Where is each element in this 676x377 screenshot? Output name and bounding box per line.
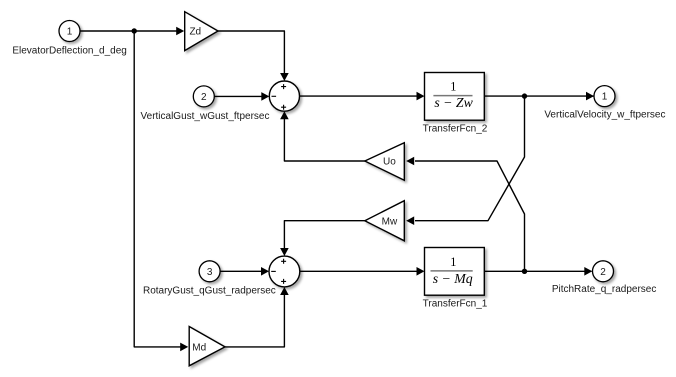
svg-text:1: 1	[67, 27, 73, 38]
svg-text:TransferFcn_2: TransferFcn_2	[423, 124, 488, 135]
svg-text:VerticalGust_wGust_ftpersec: VerticalGust_wGust_ftpersec	[141, 111, 270, 122]
svg-text:VerticalVelocity_w_ftpersec: VerticalVelocity_w_ftpersec	[544, 109, 665, 120]
svg-text:1: 1	[602, 92, 608, 103]
svg-text:RotaryGust_qGust_radpersec: RotaryGust_qGust_radpersec	[143, 285, 276, 296]
svg-text:Uo: Uo	[383, 157, 396, 168]
svg-text:2: 2	[201, 92, 207, 103]
svg-text:Md: Md	[192, 343, 206, 354]
svg-text:ElevatorDeflection_d_deg: ElevatorDeflection_d_deg	[12, 45, 127, 56]
svg-text:s − Zw: s − Zw	[434, 95, 473, 110]
svg-text:1: 1	[450, 255, 456, 269]
svg-text:s − Mq: s − Mq	[433, 271, 473, 286]
svg-text:Mw: Mw	[382, 216, 398, 227]
svg-text:1: 1	[450, 80, 456, 94]
svg-text:Zd: Zd	[189, 27, 201, 38]
svg-text:TransferFcn_1: TransferFcn_1	[423, 299, 488, 310]
svg-text:3: 3	[207, 267, 213, 278]
svg-text:2: 2	[600, 267, 606, 278]
svg-text:PitchRate_q_radpersec: PitchRate_q_radpersec	[552, 284, 657, 295]
